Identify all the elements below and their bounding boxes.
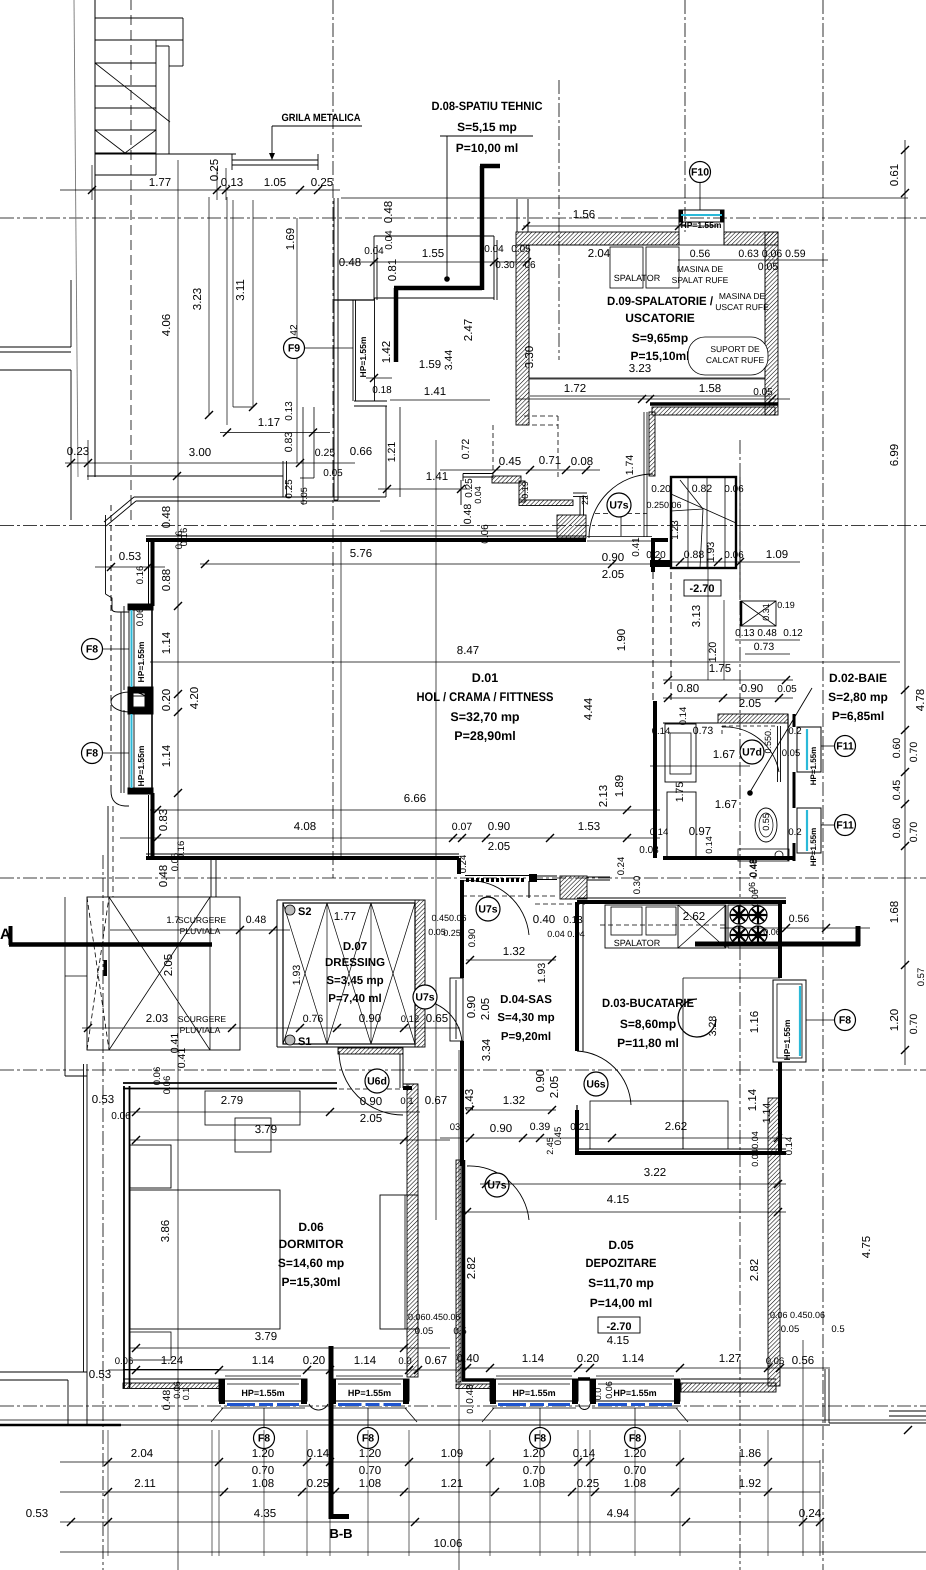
hall left wall thick lower <box>151 793 155 858</box>
svg-text:0.66: 0.66 <box>350 446 372 458</box>
terrace divider <box>209 897 211 1050</box>
spiral diag 1 <box>671 494 736 523</box>
svg-text:-2.70: -2.70 <box>689 583 714 595</box>
svg-text:U7s: U7s <box>487 1180 506 1192</box>
svg-text:0.70: 0.70 <box>908 1014 920 1035</box>
dim tick <box>223 429 231 437</box>
svg-text:1.89: 1.89 <box>614 775 626 797</box>
svg-text:B-B: B-B <box>329 1526 352 1541</box>
neighbor wall h3 <box>0 369 71 371</box>
wall cap y500 <box>334 499 338 501</box>
window F8 depozitare right <box>590 1376 688 1422</box>
left step v1 <box>67 1380 69 1425</box>
svg-text:4.15: 4.15 <box>607 1194 629 1206</box>
svg-text:4.75: 4.75 <box>861 1236 873 1258</box>
svg-text:U7s: U7s <box>478 904 497 916</box>
stair flight right wall <box>168 46 170 154</box>
svg-text:SPALATOR: SPALATOR <box>614 273 661 283</box>
svg-text:HP=1.55m: HP=1.55m <box>136 745 146 786</box>
svg-text:4.78: 4.78 <box>915 689 926 711</box>
dim line y1370 <box>108 1369 460 1371</box>
mullion bump dorm <box>309 1404 328 1410</box>
svg-text:4.94: 4.94 <box>607 1508 630 1520</box>
dormitor bottom wall hatch <box>123 1383 219 1389</box>
bottom ext line <box>577 1430 579 1556</box>
bed <box>130 1190 280 1329</box>
svg-text:PLUVIALA: PLUVIALA <box>180 1025 221 1035</box>
svg-text:0.82: 0.82 <box>692 483 713 495</box>
thin rect left <box>385 406 387 497</box>
svg-text:0.250.06: 0.250.06 <box>646 500 681 510</box>
window F8 upper glazing cyan <box>131 610 133 687</box>
svg-text:0.25: 0.25 <box>209 159 221 181</box>
svg-text:4.15: 4.15 <box>607 1335 629 1347</box>
svg-text:0.61: 0.61 <box>889 164 901 186</box>
bottom ext line <box>211 1430 213 1556</box>
dim tick <box>491 1488 499 1496</box>
wire <box>87 440 89 480</box>
threshold line a <box>587 536 652 538</box>
svg-text:0.56: 0.56 <box>690 248 711 260</box>
stair tread 8 <box>95 174 156 176</box>
door U7d dashed top <box>722 725 778 727</box>
svg-text:0.63 0.06 0.59: 0.63 0.06 0.59 <box>738 248 805 260</box>
stair centerline <box>130 0 132 520</box>
bay ledge line a <box>134 496 386 498</box>
bath right wall thick upper <box>793 714 796 727</box>
svg-text:0.25: 0.25 <box>284 479 295 499</box>
dim tick <box>799 1518 807 1526</box>
svg-text:1.32: 1.32 <box>503 946 525 958</box>
stair bottom line <box>95 153 169 155</box>
bottom ext line <box>489 1430 491 1556</box>
dim line 6.66 <box>150 809 660 811</box>
dim tick <box>736 558 744 566</box>
svg-text:S=9,65mp: S=9,65mp <box>632 331 688 345</box>
D.09 wall bottom hatched <box>652 407 775 415</box>
spiral diag 3 <box>700 509 703 568</box>
svg-text:0.40: 0.40 <box>457 1353 479 1365</box>
svg-text:1.20: 1.20 <box>889 1009 901 1031</box>
dim tick <box>486 1364 494 1372</box>
spiral diag 4 <box>680 480 703 509</box>
marker U7s hall <box>607 493 631 517</box>
marker U7s sas <box>476 897 500 921</box>
svg-text:0.06: 0.06 <box>724 484 744 495</box>
svg-text:2.62: 2.62 <box>665 1121 687 1133</box>
svg-text:2.04: 2.04 <box>588 248 611 260</box>
dim tick <box>67 1518 75 1526</box>
wire <box>220 432 330 434</box>
masina de spalat 2 <box>646 247 679 288</box>
dim tick <box>568 1488 576 1496</box>
stair diagonal 1 <box>95 63 170 122</box>
svg-text:0.0: 0.0 <box>398 1356 411 1367</box>
bay lower wall <box>107 806 109 897</box>
axis line horizontal y525 <box>0 525 926 527</box>
svg-text:D.09-SPALATORIE /: D.09-SPALATORIE / <box>607 294 714 308</box>
svg-text:0.48: 0.48 <box>158 865 170 887</box>
svg-text:0.53: 0.53 <box>89 1369 111 1381</box>
ground line heavy left <box>0 1424 121 1427</box>
svg-text:0.20: 0.20 <box>303 1355 325 1367</box>
right terrace step a <box>889 1410 926 1412</box>
grila end left <box>231 154 233 170</box>
mullion cap right <box>145 694 153 711</box>
kitchen top wall inner <box>577 897 786 899</box>
svg-text:5.76: 5.76 <box>350 548 372 560</box>
axis line horizontal y878 <box>0 877 926 879</box>
kitchen low cabinet 2 <box>683 1101 728 1149</box>
hall top wall inner line <box>146 535 586 537</box>
svg-text:A: A <box>0 926 11 943</box>
dim tick <box>326 1108 334 1116</box>
svg-text:0.48: 0.48 <box>339 257 361 269</box>
dim tick <box>173 472 181 480</box>
dim tick <box>719 694 727 702</box>
wall below hall a <box>210 858 212 897</box>
jamb line a <box>643 412 645 537</box>
svg-text:0.06 0.450.06: 0.06 0.450.06 <box>770 1310 825 1320</box>
window F9 frame 2 <box>355 300 357 401</box>
svg-text:1.14: 1.14 <box>622 1353 645 1365</box>
left step v2 <box>86 1372 88 1425</box>
svg-text:0.70: 0.70 <box>252 1465 274 1477</box>
svg-text:0.18: 0.18 <box>372 385 392 396</box>
dim tick <box>822 924 830 932</box>
bottom sill line <box>121 1424 830 1426</box>
wire <box>582 902 584 1051</box>
svg-text:0.5: 0.5 <box>453 1326 466 1337</box>
svg-text:3.13: 3.13 <box>691 605 703 627</box>
door arc U7d <box>722 727 779 772</box>
D.02 leader <box>750 688 812 792</box>
axis line horizontal y1406 <box>0 1405 926 1407</box>
dim tick <box>676 1364 684 1372</box>
dim tick <box>458 834 466 842</box>
svg-text:0.04: 0.04 <box>473 486 483 504</box>
svg-text:0.05: 0.05 <box>777 684 797 695</box>
wire <box>326 903 328 1044</box>
hall interior extension line <box>340 540 342 858</box>
svg-text:0.25: 0.25 <box>307 1478 329 1490</box>
dim line 3.79 <box>130 1139 450 1141</box>
dim tick <box>457 485 465 493</box>
svg-text:1.56: 1.56 <box>573 209 595 221</box>
svg-text:DORMITOR: DORMITOR <box>278 1237 343 1251</box>
dressing right wall hatched <box>415 900 425 1047</box>
stove burner <box>749 926 767 944</box>
bottom ext line <box>589 1430 591 1556</box>
window F9 frame right <box>374 298 376 401</box>
level -2.70 box <box>684 580 721 596</box>
svg-text:S=4,30 mp: S=4,30 mp <box>497 1012 554 1024</box>
svg-text:0.70: 0.70 <box>523 1465 545 1477</box>
dim tick <box>676 1458 684 1466</box>
svg-text:0.25: 0.25 <box>443 928 461 938</box>
svg-text:0.06: 0.06 <box>750 889 760 907</box>
svg-text:0.19: 0.19 <box>520 481 530 499</box>
door arc U6d <box>339 1051 403 1115</box>
svg-text:0.06: 0.06 <box>763 927 781 937</box>
dim tick line 1.42 <box>366 377 392 379</box>
svg-text:0.07: 0.07 <box>452 821 473 833</box>
sas window inner line <box>455 980 457 1039</box>
svg-text:-2.70: -2.70 <box>606 1321 631 1333</box>
marker F8 dorm right <box>358 1428 379 1449</box>
svg-text:HP=1.55m: HP=1.55m <box>809 828 818 866</box>
wall double line left a <box>333 198 335 500</box>
left strip a <box>302 407 304 505</box>
svg-text:2.05: 2.05 <box>163 954 175 976</box>
stair arrow diag left <box>95 130 125 153</box>
hall left wall inner lower <box>148 795 150 856</box>
wire <box>128 610 130 687</box>
dim line 1.75 <box>663 679 793 681</box>
svg-text:0.20: 0.20 <box>651 484 671 495</box>
svg-text:0.14: 0.14 <box>652 726 671 737</box>
svg-text:SPALAT RUFE: SPALAT RUFE <box>672 275 729 285</box>
wire <box>370 903 372 1044</box>
dim tick <box>776 1364 784 1372</box>
dressing X diag a <box>283 903 327 1044</box>
kitchen hood box <box>678 905 726 948</box>
svg-text:HOL / CRAMA / FITTNESS: HOL / CRAMA / FITTNESS <box>417 690 554 704</box>
svg-text:03: 03 <box>450 1122 461 1133</box>
svg-text:0.1: 0.1 <box>181 1388 191 1401</box>
svg-text:0.48: 0.48 <box>383 201 395 223</box>
svg-text:0.06: 0.06 <box>115 1356 134 1367</box>
dim tick <box>449 834 457 842</box>
neighbor wall h1 <box>0 346 71 348</box>
dashed opening right <box>557 416 559 478</box>
extension line x178 <box>177 160 179 1570</box>
axis vertical x333 <box>332 0 334 878</box>
svg-text:1.59: 1.59 <box>419 359 441 371</box>
wire <box>678 905 726 948</box>
dim tick <box>326 1366 334 1374</box>
wire <box>706 477 708 568</box>
F8 dep leader right <box>634 1408 636 1427</box>
dim tick <box>901 1046 909 1054</box>
bath top wall left piece <box>663 722 718 724</box>
extension line x436 <box>435 440 437 1220</box>
S1 marker <box>285 1035 311 1048</box>
svg-text:USCAT RUFE: USCAT RUFE <box>715 302 769 312</box>
window F8 kitchen glazing <box>799 986 801 1056</box>
svg-text:2.03: 2.03 <box>146 1013 168 1025</box>
bay bottom curve <box>111 791 129 806</box>
marker U7s dep <box>485 1173 509 1197</box>
window F10 glazing cyan <box>681 214 722 216</box>
counter dashed centerline <box>600 924 725 926</box>
door leaf U6d b <box>402 1054 404 1088</box>
svg-text:0.90: 0.90 <box>741 683 763 695</box>
svg-text:1.41: 1.41 <box>426 471 448 483</box>
svg-text:0.06: 0.06 <box>604 1381 614 1399</box>
dim row y1492 <box>60 1491 820 1493</box>
svg-text:0.06: 0.06 <box>135 608 146 627</box>
dim tick <box>215 1458 223 1466</box>
svg-text:2.05: 2.05 <box>360 1113 382 1125</box>
dim tick <box>269 926 277 934</box>
bay outer sill line <box>120 612 122 793</box>
svg-text:0.73: 0.73 <box>693 725 714 737</box>
svg-text:0.90: 0.90 <box>602 552 624 564</box>
dim line y1138 <box>440 1137 600 1139</box>
svg-text:S=2,80 mp: S=2,80 mp <box>828 690 888 704</box>
svg-text:1.20: 1.20 <box>707 642 719 663</box>
bay chamfer outer <box>104 497 134 522</box>
dim tick <box>901 842 909 850</box>
section A line <box>9 942 212 947</box>
wall line above hatch <box>681 1378 776 1380</box>
dim line 8.47 <box>150 661 900 663</box>
left step line 2 <box>0 1379 68 1381</box>
sas partition top line <box>465 875 530 877</box>
svg-text:0.5: 0.5 <box>831 1324 844 1335</box>
svg-text:2.82: 2.82 <box>466 1257 478 1279</box>
dim tick <box>370 374 378 382</box>
wire <box>687 477 689 568</box>
svg-text:0.14: 0.14 <box>704 836 714 854</box>
dim tick <box>486 1458 494 1466</box>
D.09 interior dim line <box>529 378 765 380</box>
marker F8 lower <box>82 743 103 764</box>
svg-text:0.13 0.48: 0.13 0.48 <box>735 628 777 639</box>
svg-text:SCURGERE: SCURGERE <box>178 915 227 925</box>
svg-text:DEPOZITARE: DEPOZITARE <box>586 1256 657 1270</box>
dim tick <box>201 560 209 568</box>
wire <box>225 168 227 200</box>
wire <box>133 610 135 687</box>
kitchen left wall upper <box>575 902 579 1051</box>
svg-text:2.05: 2.05 <box>602 569 624 581</box>
dressing X diag a <box>371 903 415 1044</box>
tehnic enclosure left inner <box>376 245 378 300</box>
svg-text:MASINA DE: MASINA DE <box>677 264 724 274</box>
svg-text:0.70: 0.70 <box>359 1465 381 1477</box>
dresser small <box>235 1118 271 1152</box>
section B stub <box>329 1514 349 1519</box>
step connector v2 <box>583 496 585 515</box>
dim tick <box>84 459 92 467</box>
section B line <box>329 1346 334 1519</box>
dim tick <box>482 1180 490 1188</box>
dim tick <box>414 1366 422 1374</box>
marker F8 dep left <box>530 1428 551 1449</box>
svg-text:S=8,60mp: S=8,60mp <box>620 1017 676 1031</box>
hall bottom wall thick <box>146 856 459 860</box>
svg-text:0.04: 0.04 <box>364 246 384 257</box>
hatched pillar sas <box>560 876 587 899</box>
dressing top outer <box>277 899 420 901</box>
shaft left thick <box>740 601 743 626</box>
svg-text:0.83: 0.83 <box>283 432 295 453</box>
dim tick <box>84 1024 92 1032</box>
F10 cap right <box>720 210 724 222</box>
svg-text:P=6,85ml: P=6,85ml <box>832 709 884 723</box>
dim line 3.13 <box>707 545 709 680</box>
dim tick <box>764 1364 772 1372</box>
svg-text:3.44: 3.44 <box>443 350 455 371</box>
D.09 left wall upper line a <box>516 199 518 232</box>
bottom ext line <box>767 1430 769 1556</box>
wire <box>721 726 723 734</box>
dim tick <box>676 558 684 566</box>
D.02 leader dot <box>747 790 753 796</box>
grila leader arrow <box>269 153 275 160</box>
dim tick <box>574 1458 582 1466</box>
dim tick <box>153 834 161 842</box>
window F11 lower frame <box>797 808 821 853</box>
dim line y1368 dep <box>460 1367 830 1369</box>
F8 leader lower <box>103 752 129 754</box>
wall to grille <box>169 153 236 155</box>
svg-text:0.83: 0.83 <box>158 809 170 831</box>
svg-text:0.2: 0.2 <box>788 726 801 737</box>
F9 leader <box>304 347 353 349</box>
dim tick <box>901 800 909 808</box>
stair left wall <box>94 0 96 477</box>
dim tick <box>782 924 790 932</box>
svg-text:0.20: 0.20 <box>161 689 173 711</box>
dim tick <box>104 1518 112 1526</box>
window cap mid lower <box>128 708 153 714</box>
spiral diag 2 <box>671 509 703 511</box>
west boundary wall a <box>83 1064 85 1372</box>
left step line v <box>64 1050 66 1076</box>
marker U6d <box>365 1069 389 1093</box>
svg-text:1.55: 1.55 <box>422 248 444 260</box>
dim tick <box>333 1024 341 1032</box>
hall left wall inner upper <box>148 538 150 604</box>
axis vertical x559 <box>558 80 560 360</box>
svg-text:0.05: 0.05 <box>299 487 309 505</box>
terrace outline <box>87 897 240 1050</box>
dim line 4.15 <box>460 1211 786 1213</box>
dim tick <box>586 1458 594 1466</box>
svg-text:CALCAT RUFE: CALCAT RUFE <box>706 355 765 365</box>
svg-text:0.05: 0.05 <box>415 1326 434 1337</box>
stair tread right edge <box>155 40 157 175</box>
spiral box outer right line <box>739 477 741 600</box>
svg-text:0.41: 0.41 <box>169 1033 181 1054</box>
wire <box>670 733 691 774</box>
terrace diag 2 <box>109 897 210 1050</box>
step wall line a <box>463 473 492 475</box>
svg-text:2.04: 2.04 <box>131 1448 154 1460</box>
kitchen table hidden <box>683 978 728 1045</box>
dormitor top wall line b <box>123 1088 337 1090</box>
dim tick <box>296 186 304 194</box>
svg-text:0.05: 0.05 <box>323 468 343 479</box>
dim chain 3.11 b <box>252 200 254 407</box>
svg-text:0.06: 0.06 <box>162 1076 173 1095</box>
axis vertical x685 <box>684 0 686 232</box>
window F8 kitchen frame <box>773 980 806 1062</box>
grila metalica bottom line <box>232 164 318 166</box>
dim tick <box>901 189 909 197</box>
dim line y470 <box>440 469 600 471</box>
svg-text:1.23: 1.23 <box>670 520 681 540</box>
bay lower dashed <box>112 806 114 897</box>
dim tick <box>411 1518 419 1526</box>
bath left wall thick <box>653 701 657 858</box>
dim tick <box>132 1108 140 1116</box>
corridor dashed wall a <box>652 572 654 700</box>
svg-text:1.32: 1.32 <box>503 1095 525 1107</box>
